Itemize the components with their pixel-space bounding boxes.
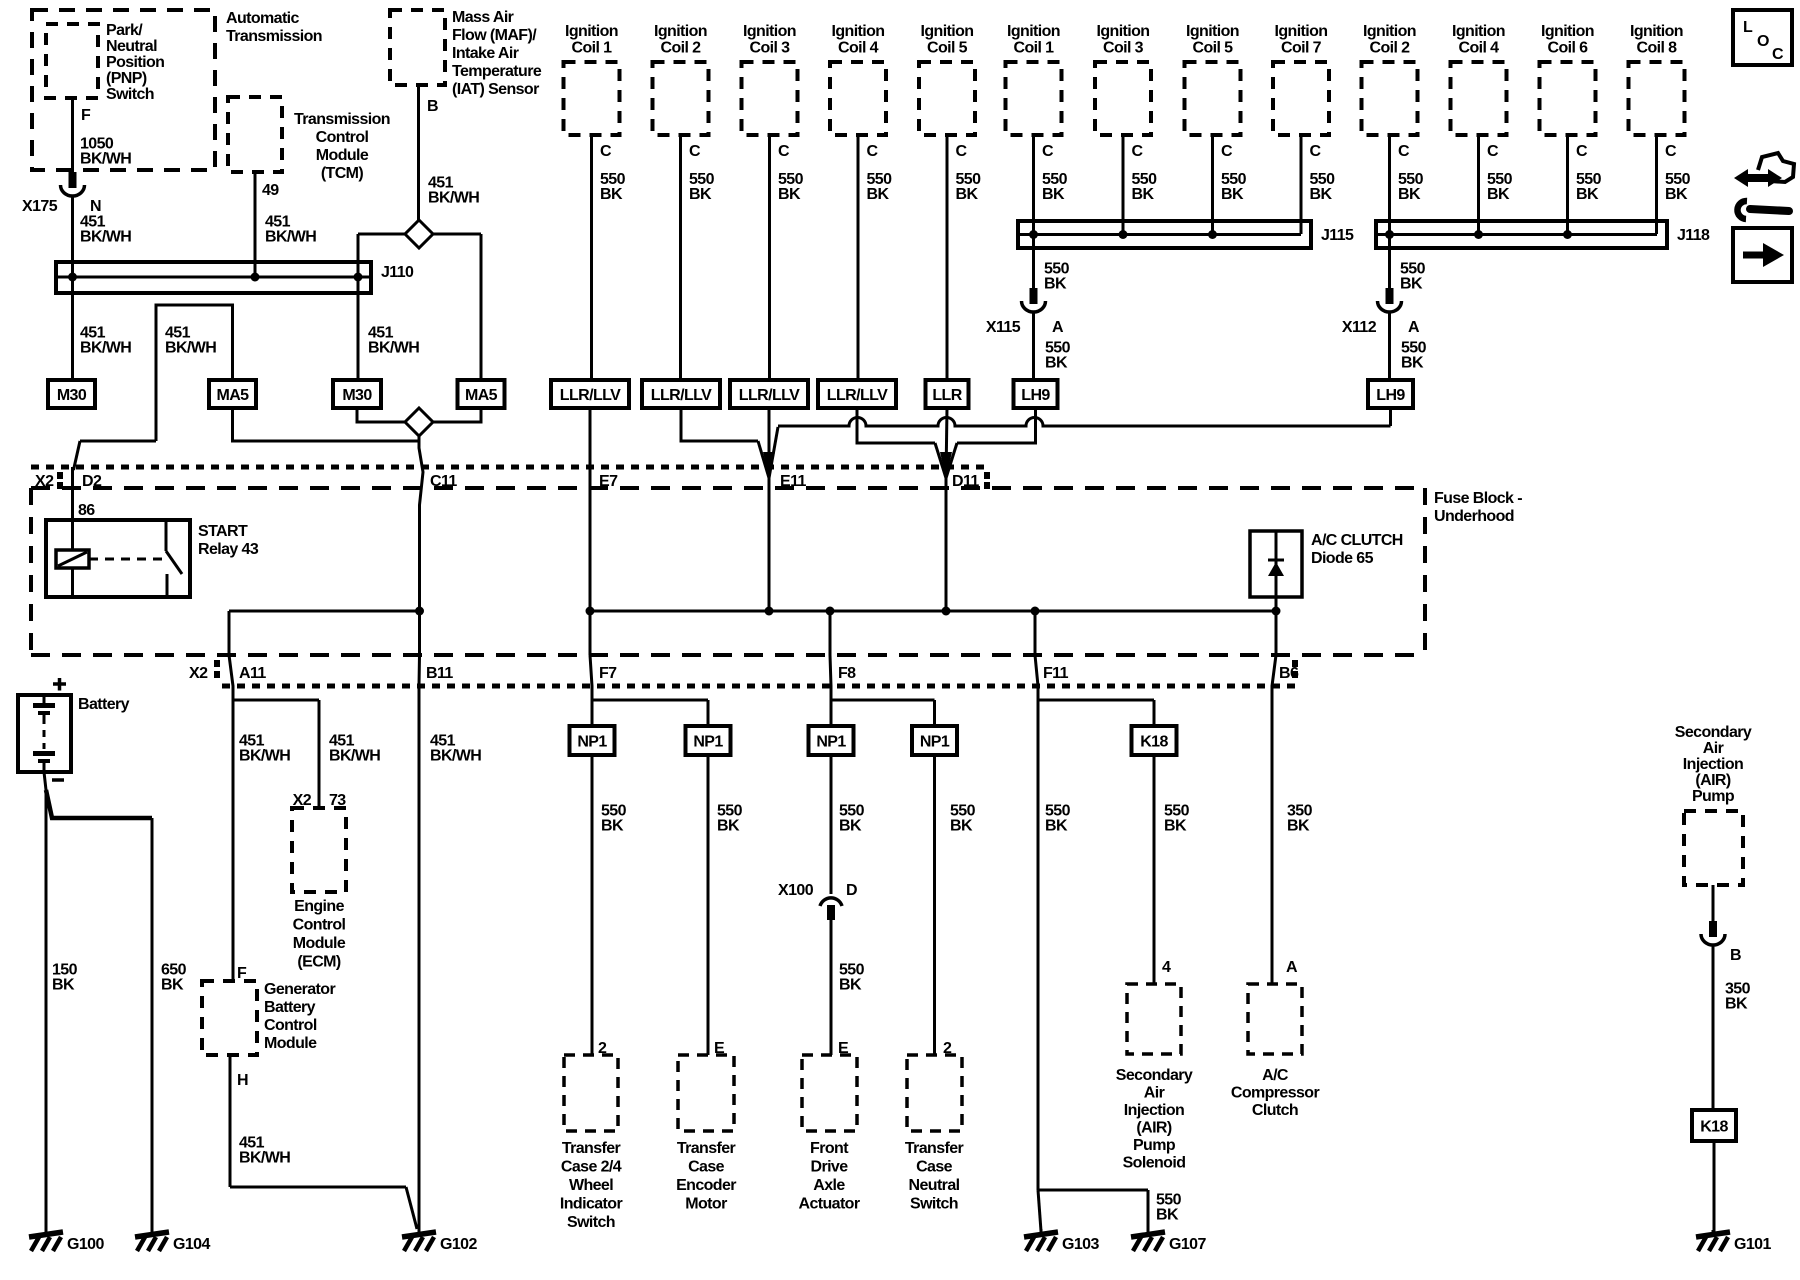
svg-text:A: A xyxy=(1052,319,1064,336)
svg-text:BK/WH: BK/WH xyxy=(329,748,380,765)
svg-text:F8: F8 xyxy=(838,665,856,682)
svg-text:Compressor: Compressor xyxy=(1231,1085,1320,1102)
svg-text:BK/WH: BK/WH xyxy=(165,340,216,357)
svg-text:LLR/LLV: LLR/LLV xyxy=(651,387,712,404)
svg-text:BK/WH: BK/WH xyxy=(368,340,419,357)
svg-text:A11: A11 xyxy=(239,665,266,682)
svg-text:LLR: LLR xyxy=(932,387,962,404)
svg-text:Flow (MAF)/: Flow (MAF)/ xyxy=(452,27,537,44)
svg-text:Neutral: Neutral xyxy=(106,38,157,55)
svg-text:Axle: Axle xyxy=(813,1177,845,1194)
svg-text:B11: B11 xyxy=(426,665,453,682)
svg-text:C: C xyxy=(867,143,879,160)
svg-text:F11: F11 xyxy=(1043,665,1069,682)
svg-text:BK: BK xyxy=(1487,186,1510,203)
svg-text:(TCM): (TCM) xyxy=(321,165,364,182)
svg-text:BK: BK xyxy=(1044,276,1067,293)
svg-text:BK: BK xyxy=(1287,818,1310,835)
svg-text:Ignition: Ignition xyxy=(1363,23,1416,40)
svg-text:START: START xyxy=(198,523,248,540)
svg-text:H: H xyxy=(237,1072,248,1089)
svg-text:NP1: NP1 xyxy=(816,734,846,751)
svg-text:Ignition: Ignition xyxy=(1541,23,1594,40)
svg-text:X2: X2 xyxy=(189,665,208,682)
svg-text:B: B xyxy=(427,98,438,115)
svg-text:BK/WH: BK/WH xyxy=(428,190,479,207)
svg-text:A: A xyxy=(1286,959,1298,976)
svg-text:Transfer: Transfer xyxy=(905,1140,964,1157)
svg-text:BK/WH: BK/WH xyxy=(265,229,316,246)
svg-text:BK: BK xyxy=(1665,186,1688,203)
svg-text:BK/WH: BK/WH xyxy=(239,748,290,765)
svg-text:BK/WH: BK/WH xyxy=(80,229,131,246)
svg-text:G103: G103 xyxy=(1062,1236,1099,1253)
svg-text:Neutral: Neutral xyxy=(909,1177,960,1194)
svg-text:BK: BK xyxy=(956,186,979,203)
svg-text:Coil 8: Coil 8 xyxy=(1637,40,1678,57)
svg-text:C: C xyxy=(1665,143,1677,160)
svg-text:MA5: MA5 xyxy=(465,387,498,404)
svg-text:(ECM): (ECM) xyxy=(297,954,340,971)
svg-text:BK: BK xyxy=(1400,276,1423,293)
svg-text:M30: M30 xyxy=(342,387,372,404)
svg-text:BK: BK xyxy=(600,186,623,203)
svg-text:BK: BK xyxy=(1164,818,1187,835)
svg-text:G101: G101 xyxy=(1734,1236,1771,1253)
svg-text:Case: Case xyxy=(688,1159,725,1176)
svg-text:Module: Module xyxy=(293,935,346,952)
svg-text:4: 4 xyxy=(1162,959,1171,976)
svg-text:BK: BK xyxy=(689,186,712,203)
svg-text:(IAT) Sensor: (IAT) Sensor xyxy=(452,81,539,98)
svg-text:Control: Control xyxy=(264,1017,317,1034)
svg-text:A/C: A/C xyxy=(1262,1067,1289,1084)
svg-text:Control: Control xyxy=(316,129,369,146)
svg-text:BK: BK xyxy=(1045,818,1068,835)
svg-text:Coil 5: Coil 5 xyxy=(1193,40,1234,57)
svg-text:Injection: Injection xyxy=(1683,756,1743,773)
svg-text:Coil 2: Coil 2 xyxy=(1370,40,1411,57)
svg-text:C: C xyxy=(778,143,790,160)
svg-text:G104: G104 xyxy=(173,1236,210,1253)
svg-text:C: C xyxy=(1487,143,1499,160)
svg-text:BK: BK xyxy=(601,818,624,835)
svg-text:Intake Air: Intake Air xyxy=(452,45,519,62)
svg-text:F: F xyxy=(81,107,91,124)
svg-text:BK/WH: BK/WH xyxy=(80,340,131,357)
svg-text:A/C CLUTCH: A/C CLUTCH xyxy=(1311,532,1403,549)
svg-text:Ignition: Ignition xyxy=(1186,23,1239,40)
svg-text:A: A xyxy=(1408,319,1420,336)
svg-text:NP1: NP1 xyxy=(920,734,950,751)
svg-text:O: O xyxy=(1757,33,1769,50)
svg-text:C: C xyxy=(1132,143,1144,160)
svg-text:Park/: Park/ xyxy=(106,22,143,39)
svg-text:Generator: Generator xyxy=(264,981,335,998)
svg-text:Encoder: Encoder xyxy=(676,1177,736,1194)
svg-text:Front: Front xyxy=(810,1140,849,1157)
svg-text:Air: Air xyxy=(1703,740,1724,757)
svg-text:Indicator: Indicator xyxy=(560,1196,623,1213)
svg-text:(PNP): (PNP) xyxy=(106,70,147,87)
svg-text:Fuse Block -: Fuse Block - xyxy=(1434,490,1522,507)
svg-text:Ignition: Ignition xyxy=(1452,23,1505,40)
svg-text:Coil 3: Coil 3 xyxy=(750,40,791,57)
svg-text:Ignition: Ignition xyxy=(654,23,707,40)
svg-text:X115: X115 xyxy=(986,319,1021,336)
svg-text:Wheel: Wheel xyxy=(569,1177,613,1194)
svg-text:M30: M30 xyxy=(57,387,87,404)
svg-text:BK: BK xyxy=(867,186,890,203)
svg-text:Injection: Injection xyxy=(1124,1102,1184,1119)
svg-text:L: L xyxy=(1743,19,1753,36)
svg-text:BK: BK xyxy=(778,186,801,203)
svg-text:G107: G107 xyxy=(1169,1236,1206,1253)
svg-text:C: C xyxy=(1221,143,1233,160)
svg-text:N: N xyxy=(90,198,101,215)
svg-text:G102: G102 xyxy=(440,1236,477,1253)
svg-text:BK: BK xyxy=(839,818,862,835)
svg-text:C: C xyxy=(1398,143,1410,160)
svg-text:(AIR): (AIR) xyxy=(1695,772,1730,789)
svg-text:LLR/LLV: LLR/LLV xyxy=(560,387,621,404)
svg-text:Coil 5: Coil 5 xyxy=(927,40,968,57)
svg-text:D: D xyxy=(846,882,857,899)
svg-text:LH9: LH9 xyxy=(1376,387,1405,404)
svg-text:BK: BK xyxy=(1310,186,1333,203)
svg-text:BK: BK xyxy=(1725,996,1748,1013)
svg-text:Diode 65: Diode 65 xyxy=(1311,550,1374,567)
svg-text:BK: BK xyxy=(950,818,973,835)
svg-text:LH9: LH9 xyxy=(1021,387,1050,404)
svg-text:Switch: Switch xyxy=(910,1196,958,1213)
svg-text:C: C xyxy=(956,143,968,160)
svg-text:X175: X175 xyxy=(22,198,58,215)
svg-text:BK: BK xyxy=(52,977,75,994)
svg-text:BK: BK xyxy=(1045,355,1068,372)
svg-text:BK: BK xyxy=(717,818,740,835)
svg-text:Clutch: Clutch xyxy=(1252,1102,1298,1119)
svg-text:Coil 1: Coil 1 xyxy=(572,40,613,57)
svg-text:NP1: NP1 xyxy=(693,734,723,751)
svg-text:Underhood: Underhood xyxy=(1434,508,1514,525)
svg-text:49: 49 xyxy=(262,182,279,199)
svg-text:Battery: Battery xyxy=(78,696,130,713)
svg-text:BK: BK xyxy=(1156,1207,1179,1224)
svg-text:C: C xyxy=(600,143,612,160)
svg-text:MA5: MA5 xyxy=(217,387,250,404)
svg-text:K18: K18 xyxy=(1700,1119,1728,1136)
svg-text:Coil 3: Coil 3 xyxy=(1103,40,1144,57)
svg-text:Actuator: Actuator xyxy=(799,1196,860,1213)
svg-text:(AIR): (AIR) xyxy=(1136,1120,1171,1137)
svg-text:Drive: Drive xyxy=(810,1159,848,1176)
svg-text:C: C xyxy=(1310,143,1322,160)
svg-text:BK: BK xyxy=(1221,186,1244,203)
svg-text:Switch: Switch xyxy=(567,1214,615,1231)
svg-text:Transfer: Transfer xyxy=(677,1140,736,1157)
svg-text:Module: Module xyxy=(316,147,369,164)
svg-text:F7: F7 xyxy=(599,665,617,682)
svg-text:Transmission: Transmission xyxy=(294,111,390,128)
svg-text:Control: Control xyxy=(293,917,346,934)
svg-text:BK: BK xyxy=(1401,355,1424,372)
svg-text:Pump: Pump xyxy=(1133,1137,1176,1154)
svg-text:K18: K18 xyxy=(1140,734,1168,751)
svg-text:Solenoid: Solenoid xyxy=(1123,1155,1186,1172)
svg-text:Ignition: Ignition xyxy=(921,23,974,40)
svg-text:Transmission: Transmission xyxy=(226,28,322,45)
svg-text:J115: J115 xyxy=(1321,227,1354,244)
svg-text:BK: BK xyxy=(1042,186,1065,203)
svg-text:Temperature: Temperature xyxy=(452,63,542,80)
svg-text:BK: BK xyxy=(1576,186,1599,203)
svg-text:BK/WH: BK/WH xyxy=(239,1150,290,1167)
svg-text:Secondary: Secondary xyxy=(1675,724,1752,741)
svg-text:LLR/LLV: LLR/LLV xyxy=(827,387,888,404)
svg-text:Transfer: Transfer xyxy=(562,1140,621,1157)
svg-text:Air: Air xyxy=(1144,1085,1165,1102)
svg-text:J118: J118 xyxy=(1677,227,1710,244)
svg-text:Switch: Switch xyxy=(106,86,154,103)
svg-text:BK/WH: BK/WH xyxy=(80,151,131,168)
svg-text:Ignition: Ignition xyxy=(1097,23,1150,40)
svg-text:B: B xyxy=(1730,947,1741,964)
svg-text:Automatic: Automatic xyxy=(226,10,300,27)
svg-text:Coil 2: Coil 2 xyxy=(661,40,702,57)
svg-text:Module: Module xyxy=(264,1035,317,1052)
svg-text:C: C xyxy=(1576,143,1588,160)
svg-text:Relay 43: Relay 43 xyxy=(198,541,259,558)
svg-text:Ignition: Ignition xyxy=(832,23,885,40)
svg-text:Coil 4: Coil 4 xyxy=(838,40,879,57)
svg-text:Ignition: Ignition xyxy=(565,23,618,40)
svg-text:BK/WH: BK/WH xyxy=(430,748,481,765)
svg-text:Ignition: Ignition xyxy=(1630,23,1683,40)
svg-text:C: C xyxy=(1772,46,1784,63)
svg-text:Pump: Pump xyxy=(1692,788,1735,805)
svg-text:Secondary: Secondary xyxy=(1116,1067,1193,1084)
svg-text:BK: BK xyxy=(839,977,862,994)
svg-text:Motor: Motor xyxy=(685,1196,727,1213)
svg-text:Case 2/4: Case 2/4 xyxy=(561,1159,622,1176)
svg-text:X100: X100 xyxy=(778,882,814,899)
svg-text:C: C xyxy=(689,143,701,160)
svg-text:Engine: Engine xyxy=(294,898,344,915)
svg-text:Coil 6: Coil 6 xyxy=(1548,40,1589,57)
svg-text:Case: Case xyxy=(916,1159,953,1176)
svg-text:Position: Position xyxy=(106,54,164,71)
svg-text:86: 86 xyxy=(78,502,95,519)
svg-text:BK: BK xyxy=(161,977,184,994)
svg-text:C: C xyxy=(1042,143,1054,160)
svg-text:Ignition: Ignition xyxy=(743,23,796,40)
svg-text:Mass Air: Mass Air xyxy=(452,9,514,26)
svg-text:J110: J110 xyxy=(381,264,414,281)
svg-text:Ignition: Ignition xyxy=(1007,23,1060,40)
svg-text:G100: G100 xyxy=(67,1236,104,1253)
svg-text:Coil 7: Coil 7 xyxy=(1281,40,1322,57)
svg-text:Ignition: Ignition xyxy=(1275,23,1328,40)
svg-text:B6: B6 xyxy=(1279,665,1299,682)
svg-text:NP1: NP1 xyxy=(577,734,607,751)
svg-text:X112: X112 xyxy=(1342,319,1377,336)
svg-text:Battery: Battery xyxy=(264,999,316,1016)
svg-text:Coil 1: Coil 1 xyxy=(1014,40,1055,57)
svg-text:Coil 4: Coil 4 xyxy=(1459,40,1500,57)
svg-text:LLR/LLV: LLR/LLV xyxy=(739,387,800,404)
svg-text:BK: BK xyxy=(1398,186,1421,203)
svg-text:BK: BK xyxy=(1132,186,1155,203)
